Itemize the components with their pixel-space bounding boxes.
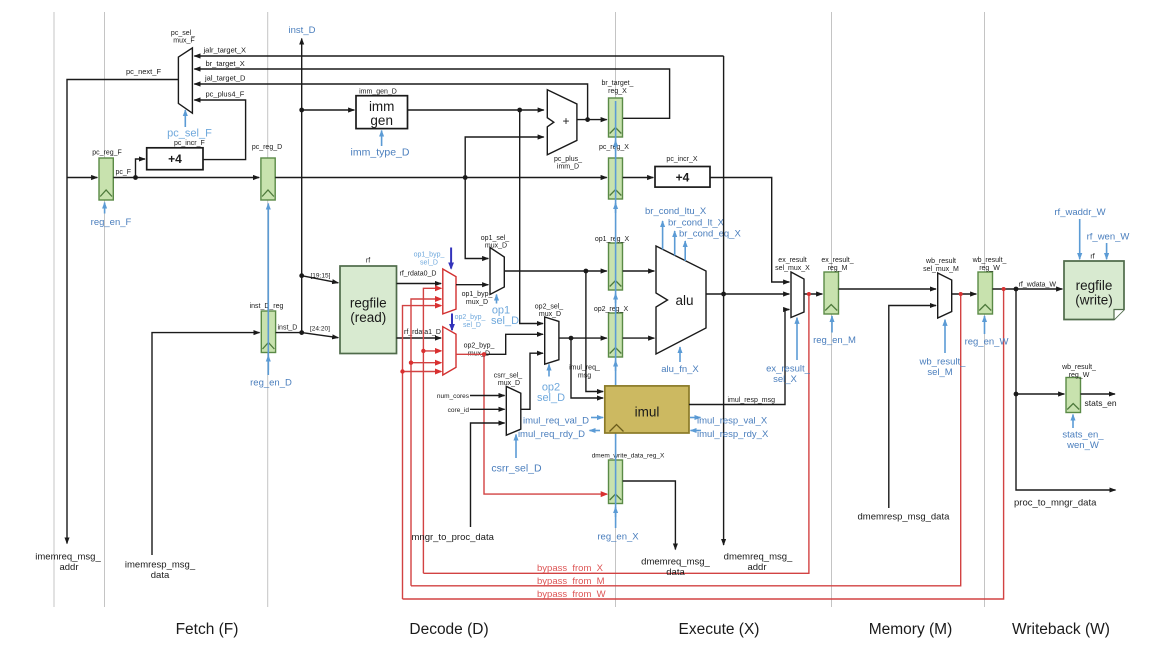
junction rf_wdata	[1014, 287, 1019, 292]
wire bypass X to op2_byp	[423, 350, 441, 352]
svg-text:proc_to_mngr_data: proc_to_mngr_data	[1014, 498, 1097, 509]
mux csrr_sel_mux_D	[506, 386, 521, 435]
svg-text:mux_F: mux_F	[173, 38, 194, 45]
svg-text:rf_rdata0_D: rf_rdata0_D	[400, 271, 437, 278]
label regfile (read)	[350, 296, 387, 326]
mux op2_byp_mux_D	[443, 327, 456, 375]
svg-text:Fetch (F): Fetch (F)	[176, 621, 239, 638]
wire op2_byp_sel_D arrow	[451, 314, 453, 331]
wire imm_gen output	[408, 109, 544, 111]
wire ex_result_sel_X arrow	[796, 318, 798, 360]
wire pc_incr_X to ex mux	[710, 178, 789, 283]
svg-text:inst_D_reg: inst_D_reg	[250, 303, 284, 310]
label br_target_reg_X	[602, 80, 634, 95]
wire reg_en_D line through inst_D_reg	[267, 204, 269, 376]
svg-text:+4: +4	[676, 171, 690, 185]
svg-text:ex_result: ex_result	[778, 257, 806, 264]
label imm gen text	[369, 99, 395, 128]
svg-text:op2_byp_: op2_byp_	[455, 314, 486, 321]
junction op1 to imul	[584, 269, 589, 274]
svg-text:wen_W: wen_W	[1066, 440, 1099, 451]
junction stats branch	[1014, 392, 1019, 397]
register op2_reg_X	[609, 313, 623, 357]
wire into pc_reg_F	[67, 177, 97, 179]
wire reg_en_F arrow	[104, 203, 106, 214]
wire pc_next_F	[67, 80, 178, 544]
wire inst to imm gen	[302, 109, 355, 111]
svg-text:reg_M: reg_M	[828, 265, 848, 272]
svg-text:sel_D: sel_D	[537, 392, 565, 404]
svg-text:pc_reg_F: pc_reg_F	[92, 150, 122, 157]
svg-text:rf_wen_W: rf_wen_W	[1087, 232, 1130, 243]
wire pc riser to op1_sel	[465, 178, 488, 259]
junction bypass W tap	[1002, 287, 1006, 291]
adder pc_plus_imm_D	[547, 90, 577, 155]
wire imul_resp_msg to ex mux	[689, 310, 789, 405]
box regfile (read)	[340, 266, 397, 354]
junction bypass W op2	[400, 369, 404, 373]
box imm gen	[356, 96, 408, 129]
wire br_target_X	[194, 69, 669, 118]
svg-text:reg_W: reg_W	[1069, 372, 1090, 379]
wire imul_req_val_D arrow	[591, 417, 603, 419]
mux pc_sel_mux_F	[178, 48, 192, 113]
svg-text:ex_result_: ex_result_	[821, 257, 853, 264]
register pc_reg_F	[99, 158, 113, 200]
stage boundary line F-left	[53, 12, 55, 607]
svg-text:br_cond_lt_X: br_cond_lt_X	[668, 217, 725, 228]
svg-text:sel_D: sel_D	[463, 322, 481, 329]
stage boundary line F/D	[267, 12, 269, 607]
junction alu out	[721, 292, 726, 297]
svg-text:stats_en: stats_en	[1085, 398, 1117, 408]
junction pc riser	[463, 175, 468, 180]
label op1 sel_D	[491, 305, 519, 328]
svg-text:sel_D: sel_D	[491, 315, 519, 327]
wire dmem write data reg out	[623, 481, 676, 550]
wire wb_result_sel_M arrow	[944, 320, 946, 353]
junction bypass M op2	[409, 361, 413, 365]
svg-text:sel_X: sel_X	[773, 374, 797, 385]
wire imul_resp_rdy_X arrow	[691, 430, 702, 432]
svg-text:(write): (write)	[1075, 293, 1113, 308]
wire ex_reg_M out to wb mux	[839, 288, 937, 290]
svg-text:regfile: regfile	[1076, 278, 1113, 293]
wire ex mux out	[804, 293, 822, 295]
svg-text:imul_req_val_D: imul_req_val_D	[523, 416, 589, 427]
wire bypass_from_M rail	[411, 294, 961, 586]
wire rf_wen_W arrow	[1106, 243, 1108, 259]
wire [19:15]	[302, 276, 339, 283]
stage boundary line M/W	[984, 12, 986, 607]
wire op2 to imul	[571, 338, 603, 398]
svg-text:sel_D: sel_D	[420, 260, 438, 267]
wire pc_plus4_F	[194, 100, 245, 160]
wire [24:20]	[302, 333, 339, 338]
wire jalr/dmemreq addr vertical	[723, 56, 725, 545]
svg-text:mngr_to_proc_data: mngr_to_proc_data	[412, 532, 495, 543]
svg-text:reg_en_F: reg_en_F	[91, 217, 132, 228]
svg-text:imul_resp_rdy_X: imul_resp_rdy_X	[697, 429, 769, 440]
wire op1_sel_D arrow	[496, 295, 498, 304]
wire rf_wdata_W	[993, 288, 1063, 290]
wire alu_fn_X arrow	[679, 347, 681, 362]
svg-text:op2_byp_: op2_byp_	[464, 343, 495, 350]
svg-text:reg_X: reg_X	[608, 88, 627, 95]
wire mngr_to_proc riser	[471, 423, 505, 527]
stage boundary line D/X	[615, 12, 617, 607]
svg-text:jalr_target_X: jalr_target_X	[203, 46, 247, 55]
svg-text:sel_mux_M: sel_mux_M	[923, 266, 959, 273]
wire reg_en_M arrow	[831, 316, 833, 333]
svg-text:wb_result_: wb_result_	[919, 357, 967, 368]
label op2_byp_mux_D	[464, 343, 495, 358]
wire br_cond_lt_X arrow	[674, 231, 676, 256]
wire csrr_sel_D arrow	[515, 435, 517, 459]
junction op2 to imul	[569, 336, 574, 341]
wire pc_F to pc_incr_F	[136, 159, 146, 178]
svg-text:reg_W: reg_W	[979, 265, 1000, 272]
svg-text:+4: +4	[168, 152, 182, 166]
svg-text:bypass_from_X: bypass_from_X	[537, 563, 604, 574]
svg-text:pc_plus_: pc_plus_	[554, 156, 582, 163]
svg-text:reg_en_W: reg_en_W	[965, 337, 1009, 348]
svg-text:imm_gen_D: imm_gen_D	[359, 89, 397, 96]
label stats_en_wen_W	[1062, 430, 1104, 452]
wire bypass riser from M	[411, 299, 441, 586]
wire imemresp data riser	[152, 333, 260, 555]
label op1_byp_mux_D	[462, 291, 493, 306]
wire bypass riser from W	[403, 306, 442, 599]
register pc_reg_D	[261, 158, 275, 200]
mux wb_result_sel_mux_M	[938, 273, 952, 318]
label op1_byp_sel_D	[414, 252, 445, 267]
label csrr_sel_mux_D	[494, 373, 523, 388]
svg-text:rf: rf	[1090, 254, 1094, 261]
svg-text:msg: msg	[578, 373, 591, 380]
svg-text:op2_sel_: op2_sel_	[535, 304, 564, 311]
svg-text:pc_plus4_F: pc_plus4_F	[206, 90, 245, 99]
mux op2_sel_mux_D	[545, 317, 559, 364]
label pc_sel_mux_F	[171, 30, 195, 45]
wire op1 to imul	[586, 271, 603, 392]
svg-text:br_cond_ltu_X: br_cond_ltu_X	[645, 206, 707, 217]
junction bypass M tap	[959, 292, 963, 296]
register ex_result_reg_M	[824, 272, 839, 314]
svg-text:alu_fn_X: alu_fn_X	[661, 364, 699, 375]
svg-text:wb_result: wb_result	[925, 258, 956, 265]
wire adder output to br_target_reg_X	[577, 119, 607, 121]
svg-text:csrr_sel_: csrr_sel_	[494, 373, 523, 380]
svg-text:gen: gen	[370, 113, 393, 128]
svg-text:imm: imm	[369, 99, 395, 114]
register wb_result_reg_W stats	[1066, 378, 1081, 413]
label wb_result_reg_W stats	[1061, 364, 1096, 379]
svg-text:ex_result_: ex_result_	[766, 363, 811, 374]
svg-text:wb_result_: wb_result_	[972, 257, 1007, 264]
alu	[656, 246, 706, 354]
box imul	[605, 386, 689, 433]
svg-text:(read): (read)	[350, 310, 386, 325]
svg-text:pc_reg_X: pc_reg_X	[599, 144, 629, 151]
label ex_result_sel_X	[766, 363, 811, 385]
svg-text:sel_M: sel_M	[927, 367, 952, 378]
junction inst to imm gen	[299, 108, 304, 113]
label dmemreq_msg_data	[641, 557, 710, 579]
wire op2_byp out	[456, 334, 543, 354]
svg-text:wb_result_: wb_result_	[1061, 364, 1096, 371]
wire bypass_from_W rail	[403, 289, 1004, 599]
mux op1_sel_mux_D	[490, 248, 504, 295]
svg-text:pc_next_F: pc_next_F	[126, 67, 161, 76]
wire to stats reg	[1016, 393, 1064, 395]
label op1_sel_mux_D	[481, 235, 510, 250]
svg-text:regfile: regfile	[350, 296, 387, 311]
wire reg_en_X enable line	[615, 101, 617, 528]
wire imul_req_rdy_D arrow	[590, 430, 601, 432]
wire rf_rdata0_D	[397, 283, 442, 285]
svg-text:pc_sel_F: pc_sel_F	[167, 128, 212, 140]
svg-text:dmemreq_msg_: dmemreq_msg_	[641, 557, 710, 568]
wire bypass_from_X rail	[423, 294, 809, 573]
wire stats_en_wen_W arrow	[1072, 415, 1074, 429]
svg-text:reg_en_D: reg_en_D	[250, 378, 292, 389]
junction bypass X tap	[807, 292, 811, 296]
svg-text:imemreq_msg_: imemreq_msg_	[35, 552, 101, 563]
wire alu output	[706, 293, 789, 295]
wire rf_waddr_W arrow	[1079, 219, 1081, 259]
svg-text:bypass_from_M: bypass_from_M	[537, 576, 605, 587]
junction bypass X op2	[421, 349, 425, 353]
wire reg_en_W arrow	[984, 316, 986, 334]
svg-text:imul_resp_val_X: imul_resp_val_X	[697, 416, 768, 427]
svg-text:pc_reg_D: pc_reg_D	[252, 144, 282, 151]
svg-text:pc_F: pc_F	[116, 169, 132, 176]
wire wb mux out	[952, 293, 977, 295]
label imul_req_msg	[569, 365, 600, 380]
label op2 sel_D	[537, 382, 565, 405]
wire core_id	[470, 408, 505, 410]
register inst_D_reg	[261, 311, 275, 353]
svg-text:mux_D: mux_D	[498, 380, 520, 387]
svg-text:imemresp_msg_: imemresp_msg_	[125, 560, 196, 571]
label wb_result_sel_M	[919, 357, 967, 379]
label op2_byp_sel_D	[455, 314, 486, 329]
wire wdata down riser	[1016, 289, 1116, 490]
svg-text:mux_D: mux_D	[539, 311, 561, 318]
svg-text:addr: addr	[747, 562, 766, 573]
svg-text:imul_resp_msg: imul_resp_msg	[728, 397, 776, 404]
wire dmemresp riser	[889, 306, 936, 509]
svg-text:Writeback (W): Writeback (W)	[1012, 621, 1110, 638]
wire pc_F	[113, 177, 259, 179]
svg-text:core_id: core_id	[448, 407, 470, 414]
junction adder out	[585, 117, 590, 122]
svg-text:imul_req_rdy_D: imul_req_rdy_D	[518, 429, 585, 440]
wire inst_D vertical	[301, 39, 303, 333]
svg-text:alu: alu	[675, 293, 693, 308]
svg-text:inst_D: inst_D	[289, 25, 316, 36]
svg-text:Memory (M): Memory (M)	[869, 621, 953, 638]
svg-text:dmemresp_msg_data: dmemresp_msg_data	[858, 512, 951, 523]
svg-text:dmemreq_msg_: dmemreq_msg_	[724, 552, 793, 563]
svg-text:reg_en_M: reg_en_M	[813, 335, 856, 346]
wire op1_byp_sel_D arrow	[450, 248, 452, 269]
stage boundary line F	[104, 12, 106, 607]
mux op1_byp_mux_D	[443, 269, 456, 314]
label dmemreq_msg_addr	[724, 552, 793, 574]
register wb_result_reg_W	[978, 272, 993, 314]
svg-text:br_target_X: br_target_X	[206, 59, 245, 68]
svg-text:imm_type_D: imm_type_D	[351, 147, 410, 159]
mux ex_result_sel_mux_X	[791, 272, 804, 318]
svg-text:Execute (X): Execute (X)	[679, 621, 760, 638]
svg-text:rf: rf	[366, 258, 370, 265]
register dmem_write_data_reg_X	[609, 460, 623, 504]
wire op2 to alu	[623, 337, 655, 339]
box pc_incr_X +4	[655, 167, 710, 188]
wire inst_D out of reg	[276, 332, 302, 334]
svg-text:pc_incr_F: pc_incr_F	[174, 140, 205, 147]
wire pc to adder in2	[465, 137, 544, 178]
wire bypass W to op2_byp	[403, 371, 442, 373]
wire bypass riser from X	[423, 288, 441, 573]
wire br_cond_eq_X arrow	[684, 241, 686, 261]
svg-text:pc_sel_: pc_sel_	[171, 30, 195, 37]
box regfile (write)	[1064, 261, 1124, 320]
svg-text:op1_byp_: op1_byp_	[414, 252, 445, 259]
junction inst_D	[299, 330, 304, 335]
wire jal_target_D	[194, 84, 587, 120]
svg-text:pc_incr_X: pc_incr_X	[666, 156, 697, 163]
svg-text:[24:20]: [24:20]	[310, 326, 330, 333]
wire op1_byp out to op1_sel	[456, 284, 488, 286]
svg-text:Decode (D): Decode (D)	[409, 621, 488, 638]
label ex_result_sel_mux_X	[775, 257, 810, 272]
wire store data to dmem_write_data_reg	[484, 354, 607, 494]
wire pc_X to +4	[623, 177, 654, 179]
svg-text:mux_D: mux_D	[466, 299, 488, 306]
svg-text:stats_en_: stats_en_	[1062, 430, 1104, 441]
svg-text:op2_reg_X: op2_reg_X	[594, 306, 629, 313]
svg-text:reg_en_X: reg_en_X	[597, 532, 639, 543]
label pc_plus_imm_D	[554, 156, 582, 171]
wire rf_rdata1_D	[397, 337, 442, 339]
svg-text:imul: imul	[635, 405, 660, 420]
wire op1 row to op1_reg_X	[504, 270, 607, 272]
wire imul_resp_val_X arrow	[690, 417, 701, 419]
wire csrr out to op2_sel	[521, 353, 543, 409]
dog ear regfile write	[1114, 310, 1124, 320]
svg-text:bypass_from_W: bypass_from_W	[537, 589, 606, 600]
junction imm out	[517, 108, 522, 113]
register br_target_reg_X	[609, 98, 623, 137]
register op1_reg_X	[609, 243, 623, 290]
svg-text:rf_rdata1_D: rf_rdata1_D	[404, 329, 441, 336]
svg-text:br_target_: br_target_	[602, 80, 634, 87]
svg-text:inst_D: inst_D	[278, 325, 298, 332]
wire op2_sel_D arrow	[548, 364, 550, 376]
wire imm riser to op2_sel	[520, 110, 543, 324]
wire op2 row to op2_reg_X	[559, 337, 607, 339]
register pc_reg_X	[609, 158, 623, 199]
svg-text:op1_reg_X: op1_reg_X	[595, 236, 630, 243]
svg-text:imul_req_: imul_req_	[569, 365, 600, 372]
svg-text:mux_D: mux_D	[485, 243, 507, 250]
label regfile (write)	[1075, 278, 1113, 308]
wire jalr_target_X	[194, 55, 723, 57]
svg-text:br_cond_eq_X: br_cond_eq_X	[679, 228, 741, 239]
label wb_result_reg_W	[972, 257, 1007, 272]
junction red store data	[482, 352, 486, 356]
svg-text:dmem_write_data_reg_X: dmem_write_data_reg_X	[592, 453, 665, 460]
wire imm_type_D arrow	[381, 131, 383, 147]
svg-text:+: +	[562, 114, 569, 128]
wire stats_en out	[1081, 393, 1116, 395]
stage boundary line X/M	[831, 12, 833, 607]
box pc_incr_F +4	[147, 148, 203, 170]
chevron imul clock	[610, 425, 624, 432]
svg-text:data: data	[151, 570, 170, 581]
svg-text:sel_mux_X: sel_mux_X	[775, 265, 810, 272]
svg-text:rf_wdata_W: rf_wdata_W	[1019, 282, 1057, 289]
wire num_cores	[470, 395, 505, 397]
wire pc_D to pc_reg_X	[275, 177, 607, 179]
label op2_sel_mux_D	[535, 304, 564, 319]
label imemreq_msg_addr	[35, 552, 101, 574]
wire bypass M to op2_byp	[411, 362, 441, 364]
label imemresp_msg_data	[125, 560, 196, 582]
junction inst [19:15]	[299, 273, 304, 278]
svg-text:imm_D: imm_D	[557, 164, 579, 171]
svg-text:num_cores: num_cores	[437, 393, 470, 400]
wire br_cond_ltu_X arrow	[662, 221, 664, 250]
svg-text:[19:15]: [19:15]	[311, 273, 331, 280]
svg-text:data: data	[666, 567, 685, 578]
svg-text:jal_target_D: jal_target_D	[204, 74, 246, 83]
label wb_result_sel_mux_M	[923, 258, 959, 273]
junction pc_F to +4	[133, 175, 138, 180]
svg-text:addr: addr	[59, 562, 78, 573]
svg-text:op1_sel_: op1_sel_	[481, 235, 510, 242]
wire pc_sel_F select arrow	[184, 110, 186, 127]
label ex_result_reg_M	[821, 257, 853, 272]
svg-text:csrr_sel_D: csrr_sel_D	[491, 463, 542, 475]
svg-text:rf_waddr_W: rf_waddr_W	[1054, 207, 1105, 218]
wire op1 to alu	[623, 270, 655, 272]
svg-text:op1_byp_: op1_byp_	[462, 291, 493, 298]
